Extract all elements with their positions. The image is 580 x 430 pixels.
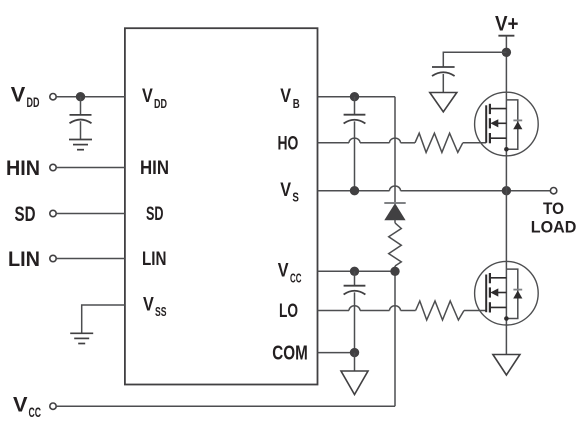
- node Q1 source/diode junction: [504, 147, 509, 152]
- terminal SD: [50, 210, 56, 216]
- IC body U1: [125, 28, 318, 384]
- Q1 drain contact: [490, 108, 506, 110]
- wire VCC node to C3: [354, 271, 356, 285]
- pin label VB (inside): [280, 85, 300, 111]
- Q2 body diode branch: [506, 269, 517, 318]
- svg-text:HIN: HIN: [140, 157, 169, 179]
- wire SD: [56, 213, 125, 215]
- svg-text:LIN: LIN: [142, 248, 167, 270]
- svg-text:SS: SS: [155, 305, 167, 319]
- svg-text:B: B: [293, 97, 300, 111]
- svg-text:LIN: LIN: [8, 247, 40, 271]
- node V+ junction: [502, 48, 511, 57]
- svg-text:V: V: [142, 85, 153, 107]
- Q1 source contact: [490, 137, 506, 139]
- svg-text:V: V: [143, 293, 154, 315]
- wire VDD node down to C1: [80, 97, 82, 115]
- V+ rail bar: [498, 35, 514, 37]
- pin label VDD (inside): [142, 85, 167, 111]
- terminal VDD (open circle): [50, 94, 56, 100]
- wire C3 down to COM node: [354, 292, 356, 352]
- Q2 channel segments: [489, 273, 491, 313]
- Q2 body circle: [475, 261, 539, 325]
- wire C4 to ground triangle: [442, 74, 444, 93]
- Q1 gate bar: [485, 105, 487, 143]
- wire COM pin: [318, 352, 355, 354]
- ground (earth) below C1: [69, 140, 92, 150]
- pin label VSS (inside): [143, 293, 167, 319]
- wire HIN: [56, 167, 125, 169]
- node Q2 source/diode junction: [504, 316, 509, 321]
- wire VB node to bootstrap cap: [354, 97, 356, 115]
- node VB junction: [350, 92, 359, 101]
- wire R3 down to bottom VCC rail: [394, 266, 396, 406]
- wire C1 to ground: [80, 121, 82, 139]
- svg-text:V: V: [280, 179, 291, 201]
- Q2 gate bar: [485, 275, 487, 313]
- Q1 body diode bar: [513, 119, 522, 121]
- ground (earth) VSS: [70, 333, 93, 343]
- wire V+ node to C4: [443, 52, 506, 67]
- capacitor C2 (bootstrap): [344, 115, 366, 124]
- terminal HIN: [50, 164, 56, 170]
- terminal VCC (bottom left): [50, 403, 56, 409]
- diode D1 (bootstrap): [384, 203, 405, 220]
- svg-text:SD: SD: [146, 203, 164, 225]
- node VCC bootstrap junction: [390, 267, 399, 276]
- svg-text:TO: TO: [543, 199, 564, 218]
- svg-text:V: V: [280, 85, 291, 107]
- svg-text:SD: SD: [15, 202, 36, 226]
- terminal LIN: [50, 255, 56, 261]
- wire COM node to triangle: [354, 353, 356, 371]
- pin label VCC (inside): [278, 260, 302, 286]
- capacitor C3 (VCC decoupling): [344, 286, 366, 295]
- wire V+ down through Q1 to VS: [505, 36, 507, 191]
- ground triangle COM: [341, 371, 368, 395]
- svg-text:V+: V+: [495, 12, 519, 36]
- svg-text:V: V: [11, 83, 26, 107]
- Q2 body arrow: [490, 288, 498, 296]
- capacitor C4 (V+ decoupling): [432, 67, 455, 76]
- svg-text:V: V: [278, 260, 289, 282]
- label TO LOAD: [531, 199, 577, 237]
- wire diode to R3: [394, 220, 396, 223]
- wire HO line with hops and lead to gate: [318, 138, 487, 143]
- node VDD junction: [76, 92, 85, 101]
- wire LO line with hops and lead to gate: [318, 306, 487, 311]
- pin label VS (inside): [280, 179, 299, 205]
- svg-text:DD: DD: [27, 95, 40, 110]
- label VCC (outside left bottom): [13, 393, 41, 421]
- wire VS down through Q2 to ground: [505, 191, 507, 355]
- Q1 channel segments: [489, 104, 491, 144]
- capacitor C1: [70, 115, 92, 123]
- Q2 drain contact: [490, 277, 506, 279]
- svg-text:COM: COM: [272, 341, 308, 364]
- Q1 body circle: [475, 92, 539, 156]
- Q1 body diode triangle: [513, 121, 522, 129]
- svg-text:HIN: HIN: [6, 156, 40, 180]
- svg-text:LO: LO: [279, 300, 298, 322]
- Q1 body diode branch: [506, 100, 517, 149]
- ground triangle (low-side source): [493, 355, 520, 376]
- wire VCC bottom rail: [56, 405, 395, 407]
- label VDD (outside left): [11, 83, 40, 111]
- wire VS line: [318, 186, 551, 191]
- svg-text:DD: DD: [154, 97, 167, 111]
- svg-text:V: V: [13, 393, 28, 417]
- transistor Q1 (high-side MOSFET): [475, 92, 539, 156]
- svg-text:CC: CC: [290, 271, 302, 285]
- wire LIN: [56, 258, 125, 260]
- wire bootstrap vertical (VB to diode): [394, 97, 396, 202]
- svg-text:LOAD: LOAD: [531, 218, 577, 237]
- wire C2 down to VS node: [354, 121, 356, 190]
- Q2 body diode bar: [513, 289, 522, 291]
- node VCC cap junction: [350, 267, 359, 276]
- svg-text:CC: CC: [29, 405, 42, 420]
- node VS junction (bootstrap cap): [350, 186, 359, 195]
- resistor R2 (LO gate resistor): [416, 301, 464, 320]
- Q2 body diode triangle: [513, 290, 522, 298]
- ground triangle (V+ decoupling): [430, 93, 457, 112]
- Q2 source contact: [490, 306, 506, 308]
- wire VDD terminal to IC pin: [56, 96, 125, 98]
- resistor R3 (bootstrap, vertical): [389, 223, 402, 266]
- svg-text:S: S: [292, 191, 299, 205]
- wire VCC pin line: [318, 270, 396, 272]
- wire VSS pin to ground: [82, 305, 125, 333]
- terminal TO LOAD: [550, 188, 556, 194]
- transistor Q2 (low-side MOSFET): [475, 261, 539, 325]
- resistor R1 (HO gate resistor): [415, 133, 463, 152]
- wire VB pin to corner: [318, 96, 396, 98]
- node VS junction (half-bridge output): [502, 186, 511, 195]
- Q1 body arrow: [490, 119, 498, 127]
- svg-text:HO: HO: [278, 132, 299, 154]
- node COM junction: [350, 348, 359, 357]
